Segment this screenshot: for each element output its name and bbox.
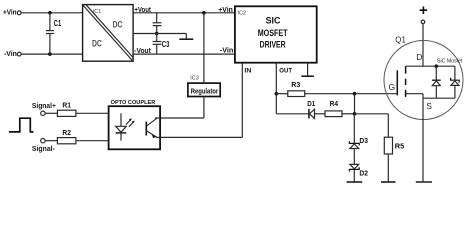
pin OUT label <box>279 68 292 75</box>
wire IC1 mid pin to cap midpoint and ground <box>133 34 186 39</box>
svg-text:Signal-: Signal- <box>32 144 55 153</box>
resistor R1 <box>57 101 76 117</box>
wire R1 to opto LED anode <box>76 112 121 114</box>
resistor R5 <box>384 137 404 154</box>
terminal Signal- <box>41 139 45 143</box>
svg-text:Signal+: Signal+ <box>32 101 57 110</box>
svg-text:IC2: IC2 <box>238 10 246 16</box>
capacitor C2 (upper, unlabeled) <box>153 13 162 34</box>
wire +V rail IC1 to IC2 <box>133 12 235 14</box>
capacitor C3 <box>153 34 170 55</box>
Q1 gate bar <box>396 70 398 95</box>
opto coupler U1 <box>109 106 161 149</box>
opto LED <box>116 113 127 140</box>
svg-text:D: D <box>416 52 422 62</box>
node -Vin (IC2) label <box>220 48 234 55</box>
junction node C <box>353 112 357 116</box>
svg-text:DC: DC <box>113 19 123 29</box>
svg-text:SiC Mosfet: SiC Mosfet <box>437 59 463 65</box>
node +Vin input label <box>3 10 17 17</box>
wire D2 to ground <box>353 169 355 181</box>
svg-text:D3: D3 <box>359 136 368 145</box>
svg-text:OPTO COUPLER: OPTO COUPLER <box>111 100 156 106</box>
terminal +Vin <box>17 11 21 15</box>
pulse signal symbol <box>9 118 34 132</box>
terminal -Vin <box>17 52 21 56</box>
svg-text:R1: R1 <box>62 101 71 110</box>
wire D3 to D2 <box>353 149 355 165</box>
svg-text:R5: R5 <box>395 141 405 150</box>
wire IC2 OUT pin down <box>275 63 277 94</box>
transistor Q1 body circle <box>384 41 463 120</box>
wire source down to ground <box>422 98 424 181</box>
svg-text:IC3: IC3 <box>190 76 198 82</box>
ground (IC2 COM) <box>301 63 313 76</box>
zener diode D2 <box>349 164 368 177</box>
node -Vout label <box>134 48 151 55</box>
svg-text:+Vin: +Vin <box>3 10 17 17</box>
opto phototransistor <box>146 118 157 138</box>
svg-text:IN: IN <box>244 68 251 75</box>
wire drain terminal down <box>422 24 424 66</box>
junction drain-diode rail <box>435 64 439 68</box>
svg-text:C1: C1 <box>54 18 62 28</box>
ground (D2) <box>347 181 363 183</box>
wire regulator feed <box>203 13 205 83</box>
diode D1 <box>307 99 315 119</box>
wire Signal- to R2 <box>45 140 57 142</box>
svg-text:DRIVER: DRIVER <box>260 40 286 51</box>
wire node A to R3 <box>276 93 288 95</box>
Q1 pin S label <box>426 101 432 111</box>
wire node A down to D1 branch <box>276 94 308 114</box>
junction node B (gate) <box>353 92 357 96</box>
gate driver IC2 <box>235 6 317 62</box>
wire -V input rail <box>21 53 82 55</box>
wire D1 to R4 <box>315 113 326 115</box>
wire node B to node C <box>354 94 356 114</box>
svg-text:C3: C3 <box>162 39 170 49</box>
svg-text:D1: D1 <box>307 99 315 108</box>
terminal drain + <box>421 20 425 24</box>
ground (R5) <box>381 181 396 183</box>
dc-dc converter IC1 <box>83 5 134 62</box>
svg-text:D2: D2 <box>359 168 368 177</box>
node +Vout label <box>134 7 151 14</box>
body diode of Q1 <box>432 66 441 98</box>
node -Vin input label <box>4 51 17 58</box>
regulator IC3 label <box>190 76 198 82</box>
junction C1 top <box>48 11 52 15</box>
Q1 source stub <box>406 94 423 99</box>
svg-text:R4: R4 <box>330 99 339 108</box>
junction cap midpoint <box>155 32 159 36</box>
ground (source) <box>416 181 432 183</box>
pin IN label <box>244 68 251 75</box>
svg-text:DC: DC <box>92 38 102 48</box>
Q1 drain stub <box>406 65 423 67</box>
opto coupler label <box>111 100 156 106</box>
svg-text:G: G <box>389 82 396 92</box>
wire node C to R5 <box>355 114 389 137</box>
zener diode D3 <box>349 136 368 149</box>
capacitor C1 <box>46 13 61 54</box>
wire node B to gate <box>355 93 398 95</box>
node Signal- label <box>32 144 55 153</box>
svg-text:MOSFET: MOSFET <box>258 28 288 39</box>
svg-text:Q1: Q1 <box>395 35 406 45</box>
wire R3 to node B <box>305 93 355 95</box>
node + (HV) label <box>419 2 428 19</box>
wire node C down to D3 <box>353 114 355 144</box>
transistor Q1 label <box>395 35 406 45</box>
svg-text:+Vin: +Vin <box>218 7 233 14</box>
wire diode bottom rail <box>423 97 455 99</box>
ground (cap midpoint) <box>179 38 193 40</box>
wire Signal+ to R1 <box>45 112 57 114</box>
wire R2 to opto LED cathode <box>76 140 121 142</box>
svg-text:R2: R2 <box>62 128 71 137</box>
terminal Signal+ <box>41 111 45 115</box>
Q1 channel (dashed) <box>405 66 407 97</box>
junction node A (OUT) <box>275 92 279 96</box>
svg-text:R3: R3 <box>291 80 300 89</box>
svg-text:SIC: SIC <box>266 16 281 27</box>
opto LED light arrows <box>126 118 135 127</box>
regulator IC3 <box>188 83 220 96</box>
wire diode top rail <box>423 65 455 67</box>
svg-text:IC1: IC1 <box>93 9 101 15</box>
svg-text:-Vin: -Vin <box>220 48 234 55</box>
junction C1 bottom <box>48 52 52 56</box>
zener diode of Q1 <box>451 66 460 98</box>
SiC Mosfet label <box>437 59 463 65</box>
wire R4 to node C <box>342 113 355 115</box>
wire -V rail IC1 to IC2 <box>133 53 235 55</box>
Q1 pin D label <box>416 52 422 62</box>
resistor R2 <box>57 128 76 144</box>
resistor R4 <box>325 99 342 117</box>
wire regulator to opto collector <box>160 97 204 119</box>
wire opto emitter to IC2 IN <box>156 63 242 138</box>
svg-text:Regulator: Regulator <box>191 87 219 96</box>
wire +V input rail <box>21 12 82 14</box>
Q1 pin G label <box>389 82 396 92</box>
svg-text:OUT: OUT <box>279 68 292 75</box>
junction regulator tap <box>202 11 206 15</box>
wire opto collector to regulator <box>155 117 160 119</box>
wire R5 to ground <box>387 154 389 181</box>
svg-text:S: S <box>426 101 432 111</box>
resistor R3 <box>288 80 305 97</box>
node Signal+ label <box>32 101 57 110</box>
svg-text:+: + <box>419 2 428 19</box>
svg-text:-Vin: -Vin <box>4 51 17 58</box>
node +Vin (IC2) label <box>218 7 233 14</box>
